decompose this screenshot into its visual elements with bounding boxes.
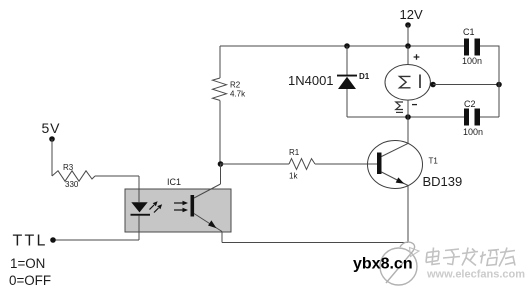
transistor T1 body (368, 141, 423, 189)
wire top rail (220, 45, 464, 47)
optocoupler IC1 body (125, 189, 231, 232)
svg-text:100n: 100n (463, 127, 483, 137)
transistor T1 base bar (377, 153, 382, 175)
wire 12V drop (407, 25, 409, 46)
wire opto emitter drop (221, 232, 223, 243)
label minus (412, 104, 417, 106)
capacitor C1 right plate (475, 39, 481, 56)
svg-text:www.elecfans.com: www.elecfans.com (426, 269, 525, 281)
node TTL terminal (50, 237, 56, 243)
transistor T1 collector diagonal (382, 143, 409, 156)
watermark logo swoosh (386, 242, 415, 283)
wire R2 upper (219, 46, 221, 78)
wire R1 left (220, 163, 289, 165)
resistor R2 (213, 78, 227, 100)
node junction bottom rail / motor / collector (405, 114, 411, 120)
wire motor case to right rail (433, 84, 499, 86)
capacitor C2 right plate (475, 109, 481, 126)
svg-text:0=OFF: 0=OFF (9, 273, 51, 288)
wire C2 to right rail (480, 116, 499, 118)
watermark chinese char you (499, 248, 515, 267)
svg-text:R3: R3 (63, 163, 74, 172)
svg-text:330: 330 (65, 180, 79, 189)
svg-text:R2: R2 (230, 81, 241, 90)
transistor T1 emitter diagonal (382, 172, 409, 186)
diode D1 triangle (338, 77, 356, 89)
opto emitter diagonal (194, 214, 222, 232)
svg-text:1=ON: 1=ON (10, 256, 45, 271)
LED lead from R3 wire (138, 176, 140, 202)
watermark chinese char zi (443, 249, 460, 265)
watermark chinese char fa (462, 248, 478, 266)
wire LED cathode drop (138, 216, 140, 240)
label plus (414, 54, 420, 60)
wire R2 lower (219, 100, 221, 164)
opto LED cathode bar (131, 214, 151, 216)
motor M1 body (385, 65, 430, 101)
capacitor C1 left plate (464, 39, 469, 56)
svg-text:C1: C1 (463, 27, 475, 37)
label M1 rotated bar (396, 111, 403, 113)
wire opto collector diagonal (194, 184, 221, 198)
svg-text:D1: D1 (359, 72, 370, 81)
node junction right rail (496, 82, 502, 88)
wire R3 to LED (95, 175, 139, 177)
capacitor C2 left plate (464, 109, 469, 126)
wire R1 right to base (315, 163, 377, 165)
svg-text:1k: 1k (289, 172, 298, 181)
wire emitter vertical (407, 186, 409, 243)
node junction R2 / R1 / opto collector (218, 161, 224, 167)
opto light arrow lower (174, 208, 188, 213)
node motor case terminal (430, 82, 436, 88)
wire D1 anode lead (346, 89, 348, 117)
wire C1 to right rail (480, 46, 499, 117)
svg-text:C2: C2 (464, 99, 476, 109)
svg-text:ybx8.cn: ybx8.cn (353, 256, 413, 273)
svg-text:R1: R1 (289, 148, 300, 157)
node junction top rail / 12V (405, 43, 411, 49)
svg-text:5V: 5V (42, 120, 61, 136)
wire motor top lead (407, 46, 409, 65)
svg-text:TTL: TTL (13, 233, 48, 250)
svg-text:100n: 100n (462, 56, 482, 66)
watermark chinese char shao (480, 250, 499, 266)
svg-text:T1: T1 (429, 157, 439, 166)
transistor T1 emitter arrowhead (396, 177, 405, 183)
opto LED emission arrow lower (154, 204, 162, 212)
watermark logo circle (380, 248, 417, 285)
wire 5V drop (51, 139, 53, 176)
diode D1 cathode bar (337, 75, 357, 77)
resistor R3 (52, 171, 95, 181)
opto LED triangle (131, 202, 147, 212)
opto phototransistor base bar (191, 195, 195, 217)
wire motor bottom lead (407, 100, 409, 117)
wire emitter bottom rail (222, 242, 408, 244)
wire TTL (53, 239, 139, 241)
opto emitter arrowhead (208, 220, 217, 228)
watermark chinese char dian (426, 248, 440, 265)
wire D1 cathode lead (346, 46, 348, 75)
resistor R1 (289, 159, 315, 170)
watermark logo play triangle (410, 248, 420, 257)
node junction top rail / D1 (344, 43, 350, 49)
svg-text:IC1: IC1 (167, 177, 181, 187)
opto light arrow upper (174, 201, 188, 206)
svg-text:12V: 12V (400, 7, 423, 22)
wire opto collector vertical (220, 164, 222, 184)
svg-text:BD139: BD139 (423, 174, 463, 189)
label M1 rotated (396, 102, 403, 110)
motor M1 rotated M glyph (400, 76, 411, 87)
motor M1 bar glyph (419, 75, 421, 89)
opto LED emission arrow upper (150, 201, 158, 209)
wire bottom motor rail (347, 116, 464, 118)
svg-text:4.7k: 4.7k (230, 90, 246, 99)
node 12V terminal (405, 22, 411, 28)
svg-text:1N4001: 1N4001 (288, 73, 334, 88)
node 5V terminal (49, 136, 55, 142)
wire collector vertical (407, 117, 409, 143)
